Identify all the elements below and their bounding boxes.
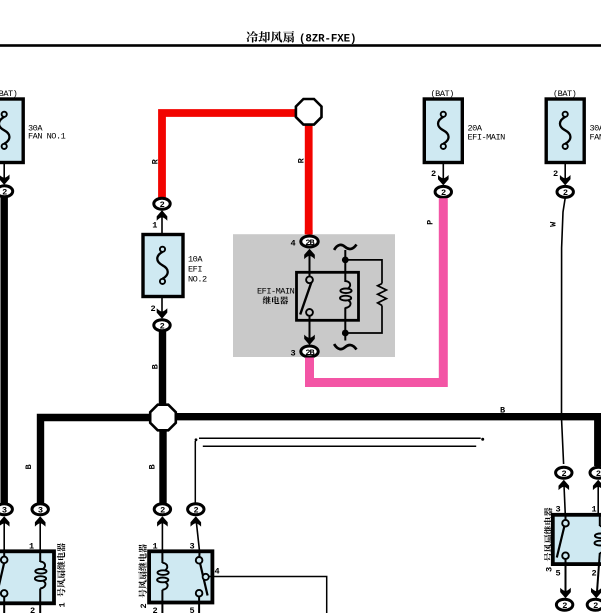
svg-text:4: 4 (291, 239, 296, 249)
wire pin4 to switch (309, 250, 311, 277)
svg-text:2: 2 (593, 601, 598, 611)
coil U1 (340, 281, 352, 308)
wire pink P: relay pin3 to EFI-MAIN fuse (310, 198, 444, 382)
svg-text:2: 2 (563, 188, 568, 198)
wire thin lower (203, 445, 476, 447)
label 3号风扇继电器 (vertical) (544, 508, 555, 572)
switch K2 (198, 553, 200, 557)
svg-text:2: 2 (553, 169, 558, 179)
svg-text:2: 2 (193, 506, 198, 516)
svg-text:P: P (426, 220, 436, 225)
wire B down branch (159, 430, 166, 504)
connector 2 at x=195.8 (188, 504, 204, 515)
connector 2 below relay 3 right (587, 599, 601, 610)
node B junction octagon (150, 405, 176, 431)
svg-text:EFI: EFI (188, 265, 202, 275)
svg-text:2: 2 (160, 506, 165, 516)
label 1号风扇继电器 (vertical) (57, 543, 68, 607)
svg-text:B: B (24, 465, 34, 470)
relay K1: 1号风扇继电器 (0, 551, 54, 603)
svg-text:NO.2: NO.2 (188, 275, 207, 285)
fuse 10A EFI NO.2 (143, 235, 183, 297)
svg-text:5: 5 (190, 606, 195, 613)
node red junction octagon (296, 99, 322, 125)
wire red R: fuse 10A EFI NO.2 up and over to relay pin 4 (162, 113, 309, 234)
connector 2 below F1 (0, 186, 13, 197)
svg-text:3: 3 (556, 505, 561, 515)
wire into relay2 pin 3 (196, 517, 200, 551)
svg-text:5: 5 (556, 569, 561, 579)
coil branch wire (344, 250, 346, 282)
svg-text:2: 2 (151, 304, 156, 314)
wire W: FAN NO.2 fuse down to relay 3 (562, 198, 566, 464)
svg-text:EFI-MAIN: EFI-MAIN (468, 133, 506, 143)
svg-text:2B: 2B (305, 238, 314, 248)
title 冷却风扇 (8ZR-FXE) (246, 31, 258, 42)
wire B: fuse 10A down to junction (159, 331, 166, 406)
label 2号风扇继电器 (vertical) (138, 544, 149, 608)
svg-text:2: 2 (441, 188, 446, 198)
wire red stub into pin 4 (305, 230, 313, 235)
header rule (0, 44, 601, 47)
wire into relay1 pin 1 (coil) (39, 517, 41, 551)
svg-text:FAN NO.1: FAN NO.1 (28, 132, 66, 142)
svg-text:2: 2 (561, 469, 566, 479)
svg-text:1: 1 (29, 542, 34, 552)
svg-text:3: 3 (190, 542, 195, 552)
wire into relay2 pin 1 (161, 517, 163, 551)
wire into relay1 pin (sw) (3, 517, 5, 551)
wavy bottom (334, 344, 356, 349)
wire B: F1 down to relay 1 (0, 197, 7, 503)
svg-text:B: B (500, 406, 505, 416)
connector 2B pin 3 (301, 346, 318, 357)
relay K3: 3号风扇继电器 (553, 515, 601, 564)
relay contact box (297, 272, 359, 320)
svg-text:1: 1 (592, 505, 597, 515)
connector 3 at x=4.2 (0, 504, 12, 515)
connector 3 at x=40.2 (32, 504, 48, 515)
svg-text:3: 3 (291, 349, 296, 359)
wires into relay 3 (564, 481, 566, 516)
svg-text:2: 2 (562, 601, 567, 611)
wire switch to pin 3 (309, 316, 311, 343)
switch blade (300, 283, 311, 315)
switch K1 (3, 553, 5, 557)
wire to relay2 pin3 (194, 441, 196, 504)
connector 2 above relay 3 (556, 467, 572, 478)
connector 2B pin 4 (301, 236, 318, 247)
wavy top (334, 245, 356, 250)
svg-text:B: B (151, 364, 161, 369)
connector 2 below EFI-MAIN fuse (435, 186, 451, 197)
svg-text:2: 2 (592, 569, 597, 579)
svg-text:2: 2 (431, 169, 436, 179)
coil K2 (161, 553, 163, 563)
svg-text:10A: 10A (188, 255, 203, 265)
svg-text:3: 3 (2, 506, 7, 516)
switch contacts (306, 276, 313, 283)
wire fuse F1 to connector (3, 163, 5, 184)
svg-text:2: 2 (153, 606, 158, 613)
svg-text:2: 2 (30, 606, 35, 613)
svg-text:(8ZR-FXE): (8ZR-FXE) (299, 34, 356, 46)
junction dots (342, 257, 349, 264)
wire B left branch (41, 418, 151, 504)
svg-text:EFI-MAIN: EFI-MAIN (257, 287, 295, 297)
svg-text:2: 2 (596, 469, 601, 479)
svg-text:1: 1 (152, 221, 157, 231)
coil K3 (clipped) (599, 516, 601, 526)
resistor branch (345, 260, 382, 333)
connector 2 below fuse 10A (154, 320, 170, 331)
wire thin upper (199, 437, 481, 439)
connector 2 at x=162.4 (154, 504, 170, 515)
svg-text:4: 4 (215, 567, 220, 577)
svg-text:2: 2 (160, 322, 165, 332)
svg-text:3: 3 (545, 567, 555, 572)
coil K1 (39, 553, 41, 562)
svg-text:FAN: FAN (590, 133, 601, 143)
svg-text:2: 2 (139, 604, 149, 609)
connector 2 above fuse 10A EFI NO.2 (154, 198, 170, 209)
wire B right branch to relay 3 (176, 417, 598, 466)
svg-text:2: 2 (160, 200, 165, 210)
svg-text:1: 1 (58, 603, 68, 608)
EFI-MAIN relay U1 gray block (233, 234, 395, 357)
svg-text:2: 2 (2, 188, 7, 198)
svg-text:2B: 2B (305, 348, 314, 358)
connector 2 below relay 3 left (556, 599, 572, 610)
relay K2: 2号风扇继电器 (149, 551, 212, 602)
connector 2 above relay 3 right (clipped) (590, 467, 601, 478)
resistor zigzag (378, 284, 387, 306)
svg-text:3: 3 (38, 506, 43, 516)
svg-text:B: B (148, 465, 158, 470)
connector 2 below FAN NO.2 fuse (557, 186, 573, 197)
switch K3 (565, 516, 567, 520)
svg-text:1: 1 (153, 542, 158, 552)
